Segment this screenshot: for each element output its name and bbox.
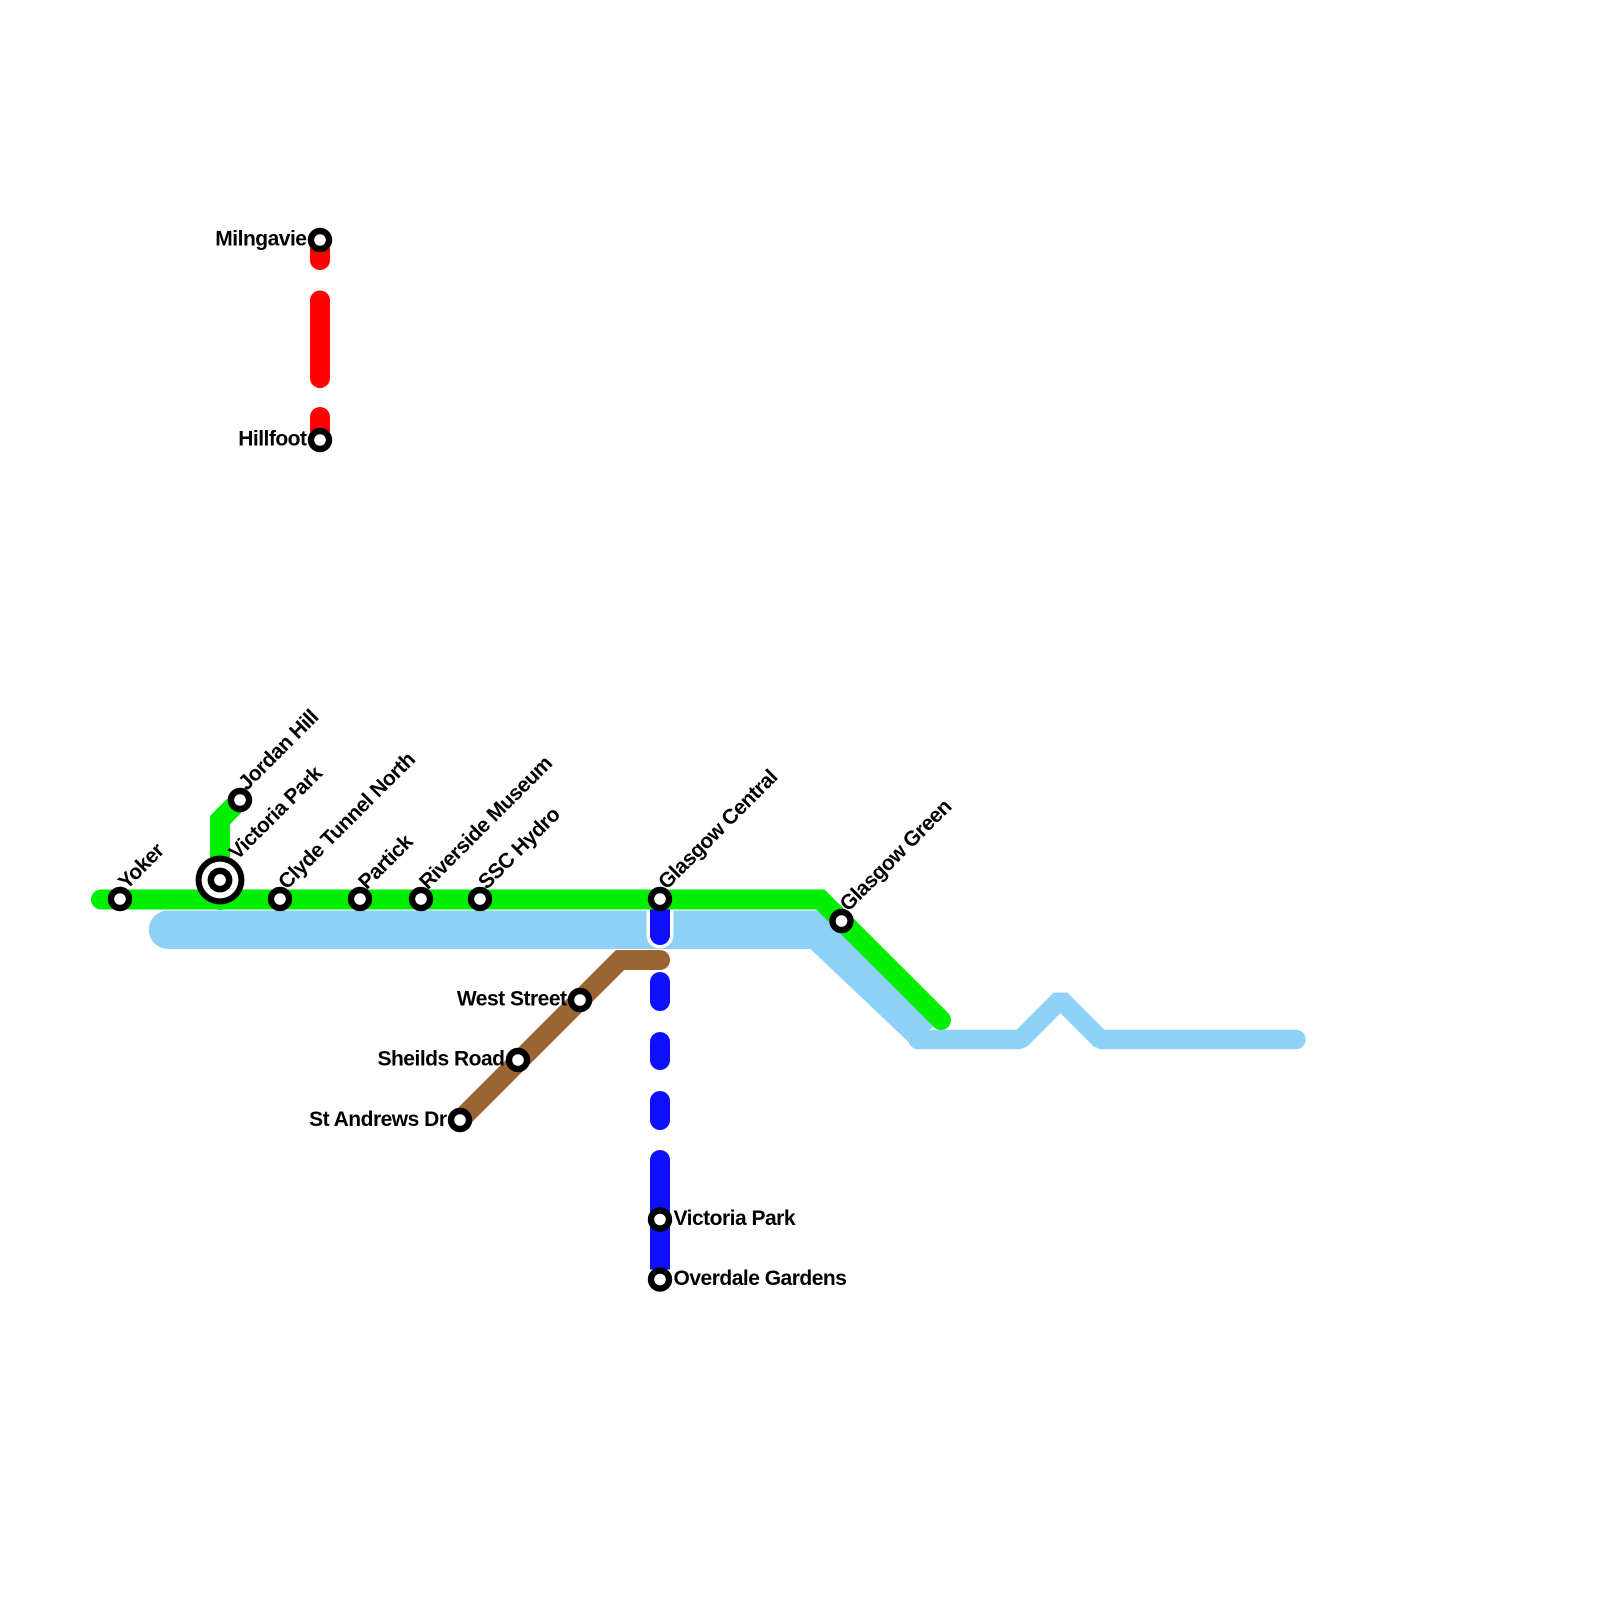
svg-text:Overdale Gardens: Overdale Gardens xyxy=(674,1267,847,1290)
svg-text:West Street: West Street xyxy=(457,988,567,1011)
svg-text:Victoria Park: Victoria Park xyxy=(674,1207,796,1230)
svg-text:Hillfoot: Hillfoot xyxy=(238,428,307,451)
svg-text:St Andrews Dr: St Andrews Dr xyxy=(309,1108,447,1131)
svg-text:Milngavie: Milngavie xyxy=(215,228,306,251)
svg-text:Sheilds Road: Sheilds Road xyxy=(377,1048,504,1071)
